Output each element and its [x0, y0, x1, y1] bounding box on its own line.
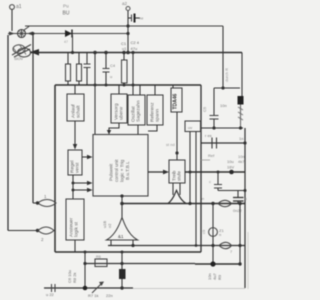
faint bottom border	[133, 288, 245, 290]
capacitor C-top	[128, 14, 144, 23]
comp above y203 right	[233, 191, 247, 204]
junction dots on bus	[93, 51, 134, 87]
svg-text:Ref: Ref	[208, 153, 215, 158]
svg-text:B.u.T.B.L: B.u.T.B.L	[125, 161, 130, 180]
wire B4 bottom stub	[148, 125, 157, 131]
x240 wire	[211, 204, 241, 265]
svg-text:0n22: 0n22	[233, 208, 243, 213]
svg-text:47: 47	[64, 40, 68, 44]
svg-text:C2 4: C2 4	[131, 40, 140, 45]
terminal T1 top-left	[10, 4, 22, 31]
wire B3 bottom stub	[137, 125, 139, 135]
svg-text:st nd: st nd	[166, 142, 175, 147]
line y203	[122, 203, 245, 205]
line y128	[201, 126, 243, 129]
svg-text:logic + Trig: logic + Trig	[120, 159, 125, 182]
varistor block left	[12, 45, 39, 62]
svg-text:durch R: durch R	[224, 68, 229, 82]
svg-text:Pu: Pu	[63, 4, 69, 9]
wire	[72, 35, 74, 53]
svg-text:22n: 22n	[106, 293, 113, 298]
svg-text:stufe: stufe	[177, 171, 182, 181]
rectifier circle V1	[9, 27, 33, 38]
pin oval right y245	[219, 242, 233, 254]
wire B1 down arrow	[73, 121, 77, 150]
wire B2 to center	[109, 123, 119, 131]
block B-low-left	[66, 199, 84, 252]
svg-text:o2: o2	[107, 223, 112, 228]
block B2	[111, 85, 127, 123]
svg-text:Sagezahn: Sagezahn	[136, 100, 142, 122]
block driver	[169, 160, 185, 183]
wire x133 to block	[132, 53, 134, 96]
terminal T2 top-center	[122, 1, 130, 53]
svg-text:TDA46: TDA46	[173, 93, 179, 109]
line y190	[218, 190, 245, 192]
svg-text:spann: spann	[156, 109, 161, 122]
pin oval left 1	[33, 194, 56, 232]
svg-text:C4: C4	[110, 63, 116, 68]
triangle gate2	[107, 204, 138, 247]
block B1 start circuit	[67, 85, 84, 121]
pin oval right y203	[211, 200, 241, 206]
center bottom wires	[120, 194, 124, 205]
block B6	[185, 121, 201, 132]
arrow center to driver	[148, 170, 169, 175]
svg-text:ne: ne	[139, 16, 144, 21]
svg-text:R6: R6	[96, 255, 101, 259]
node junction x128	[71, 24, 130, 54]
svg-text:u: u	[110, 74, 112, 79]
diagonal arrow	[92, 282, 104, 294]
faint page edge right	[247, 232, 249, 289]
resistor R4	[122, 53, 128, 86]
block B-mid-left	[68, 150, 82, 175]
block B3	[128, 85, 145, 125]
diode D1	[65, 30, 73, 53]
svg-text:u 22: u 22	[46, 292, 55, 297]
right top: y88 line	[202, 86, 240, 128]
svg-text:10n: 10n	[220, 103, 227, 108]
line y172 right	[185, 170, 247, 192]
left rails	[7, 35, 9, 231]
svg-text:R9: R9	[217, 274, 222, 280]
svg-text:schalt: schalt	[76, 105, 82, 118]
wires B6 down	[189, 132, 191, 204]
bus y52.5	[30, 52, 242, 54]
wire corner right x242	[241, 53, 243, 97]
svg-text:10u: 10u	[227, 159, 234, 164]
driver to gate1 wires	[172, 183, 174, 195]
wire x73 down	[72, 175, 93, 199]
resistor R2	[66, 53, 71, 86]
svg-text:R8 2k: R8 2k	[72, 273, 77, 283]
wire y26	[25, 25, 223, 27]
zener x213	[195, 204, 225, 265]
svg-text:verst: verst	[75, 162, 81, 173]
arrow to center	[82, 155, 93, 159]
svg-text:16V: 16V	[227, 165, 234, 170]
center block PWM	[93, 135, 148, 197]
svg-text:R7 1k: R7 1k	[88, 293, 98, 298]
svg-text:a2: a2	[122, 1, 128, 6]
svg-text:n: n	[219, 232, 221, 237]
wire x122 with black cap	[119, 252, 126, 288]
line y264	[195, 261, 242, 266]
svg-text:4k7: 4k7	[238, 159, 245, 164]
capacitor C2	[84, 53, 91, 86]
cap x218	[214, 171, 222, 191]
capacitor C3	[103, 53, 110, 86]
svg-text:C5: C5	[202, 106, 207, 112]
svg-text:47u: 47u	[131, 46, 138, 51]
svg-text:u1: u1	[122, 46, 127, 51]
right rail	[244, 128, 246, 288]
svg-text:a1: a1	[16, 4, 22, 10]
svg-text:uv: uv	[188, 125, 192, 130]
svg-text:control unit: control unit	[114, 159, 119, 182]
ground line y287	[44, 286, 133, 291]
wire x85	[84, 252, 86, 288]
black cap right	[238, 96, 244, 128]
pin oval left 2	[8, 227, 55, 242]
line y263 bottom center	[85, 262, 195, 265]
block B4	[147, 85, 163, 125]
wire x95	[94, 53, 96, 135]
wire B5 to driver	[175, 112, 178, 160]
IC outline	[55, 85, 201, 252]
stub y160	[201, 159, 210, 161]
cap on ground line	[46, 284, 55, 297]
block B5 logo	[171, 85, 182, 112]
svg-text:n: n	[245, 196, 247, 201]
svg-text:SIOV: SIOV	[14, 57, 24, 61]
svg-text:c: c	[209, 179, 211, 184]
svg-text:BU: BU	[63, 11, 70, 17]
wire main y33.5	[8, 33, 128, 35]
svg-text:r es: r es	[205, 133, 212, 138]
resistor R3	[77, 53, 82, 86]
line y143 with series cap	[201, 136, 247, 149]
wire corner right x223	[222, 26, 224, 88]
resistor box on y263	[95, 259, 107, 267]
gate hump	[168, 190, 186, 203]
svg-text:Pulsweit: Pulsweit	[109, 163, 114, 181]
svg-text:&1: &1	[118, 234, 124, 239]
line y245	[108, 245, 245, 247]
svg-text:uberw: uberw	[119, 106, 125, 120]
wire	[11, 10, 13, 32]
svg-text:1n: 1n	[239, 136, 243, 141]
svg-text:logik st: logik st	[74, 221, 80, 237]
